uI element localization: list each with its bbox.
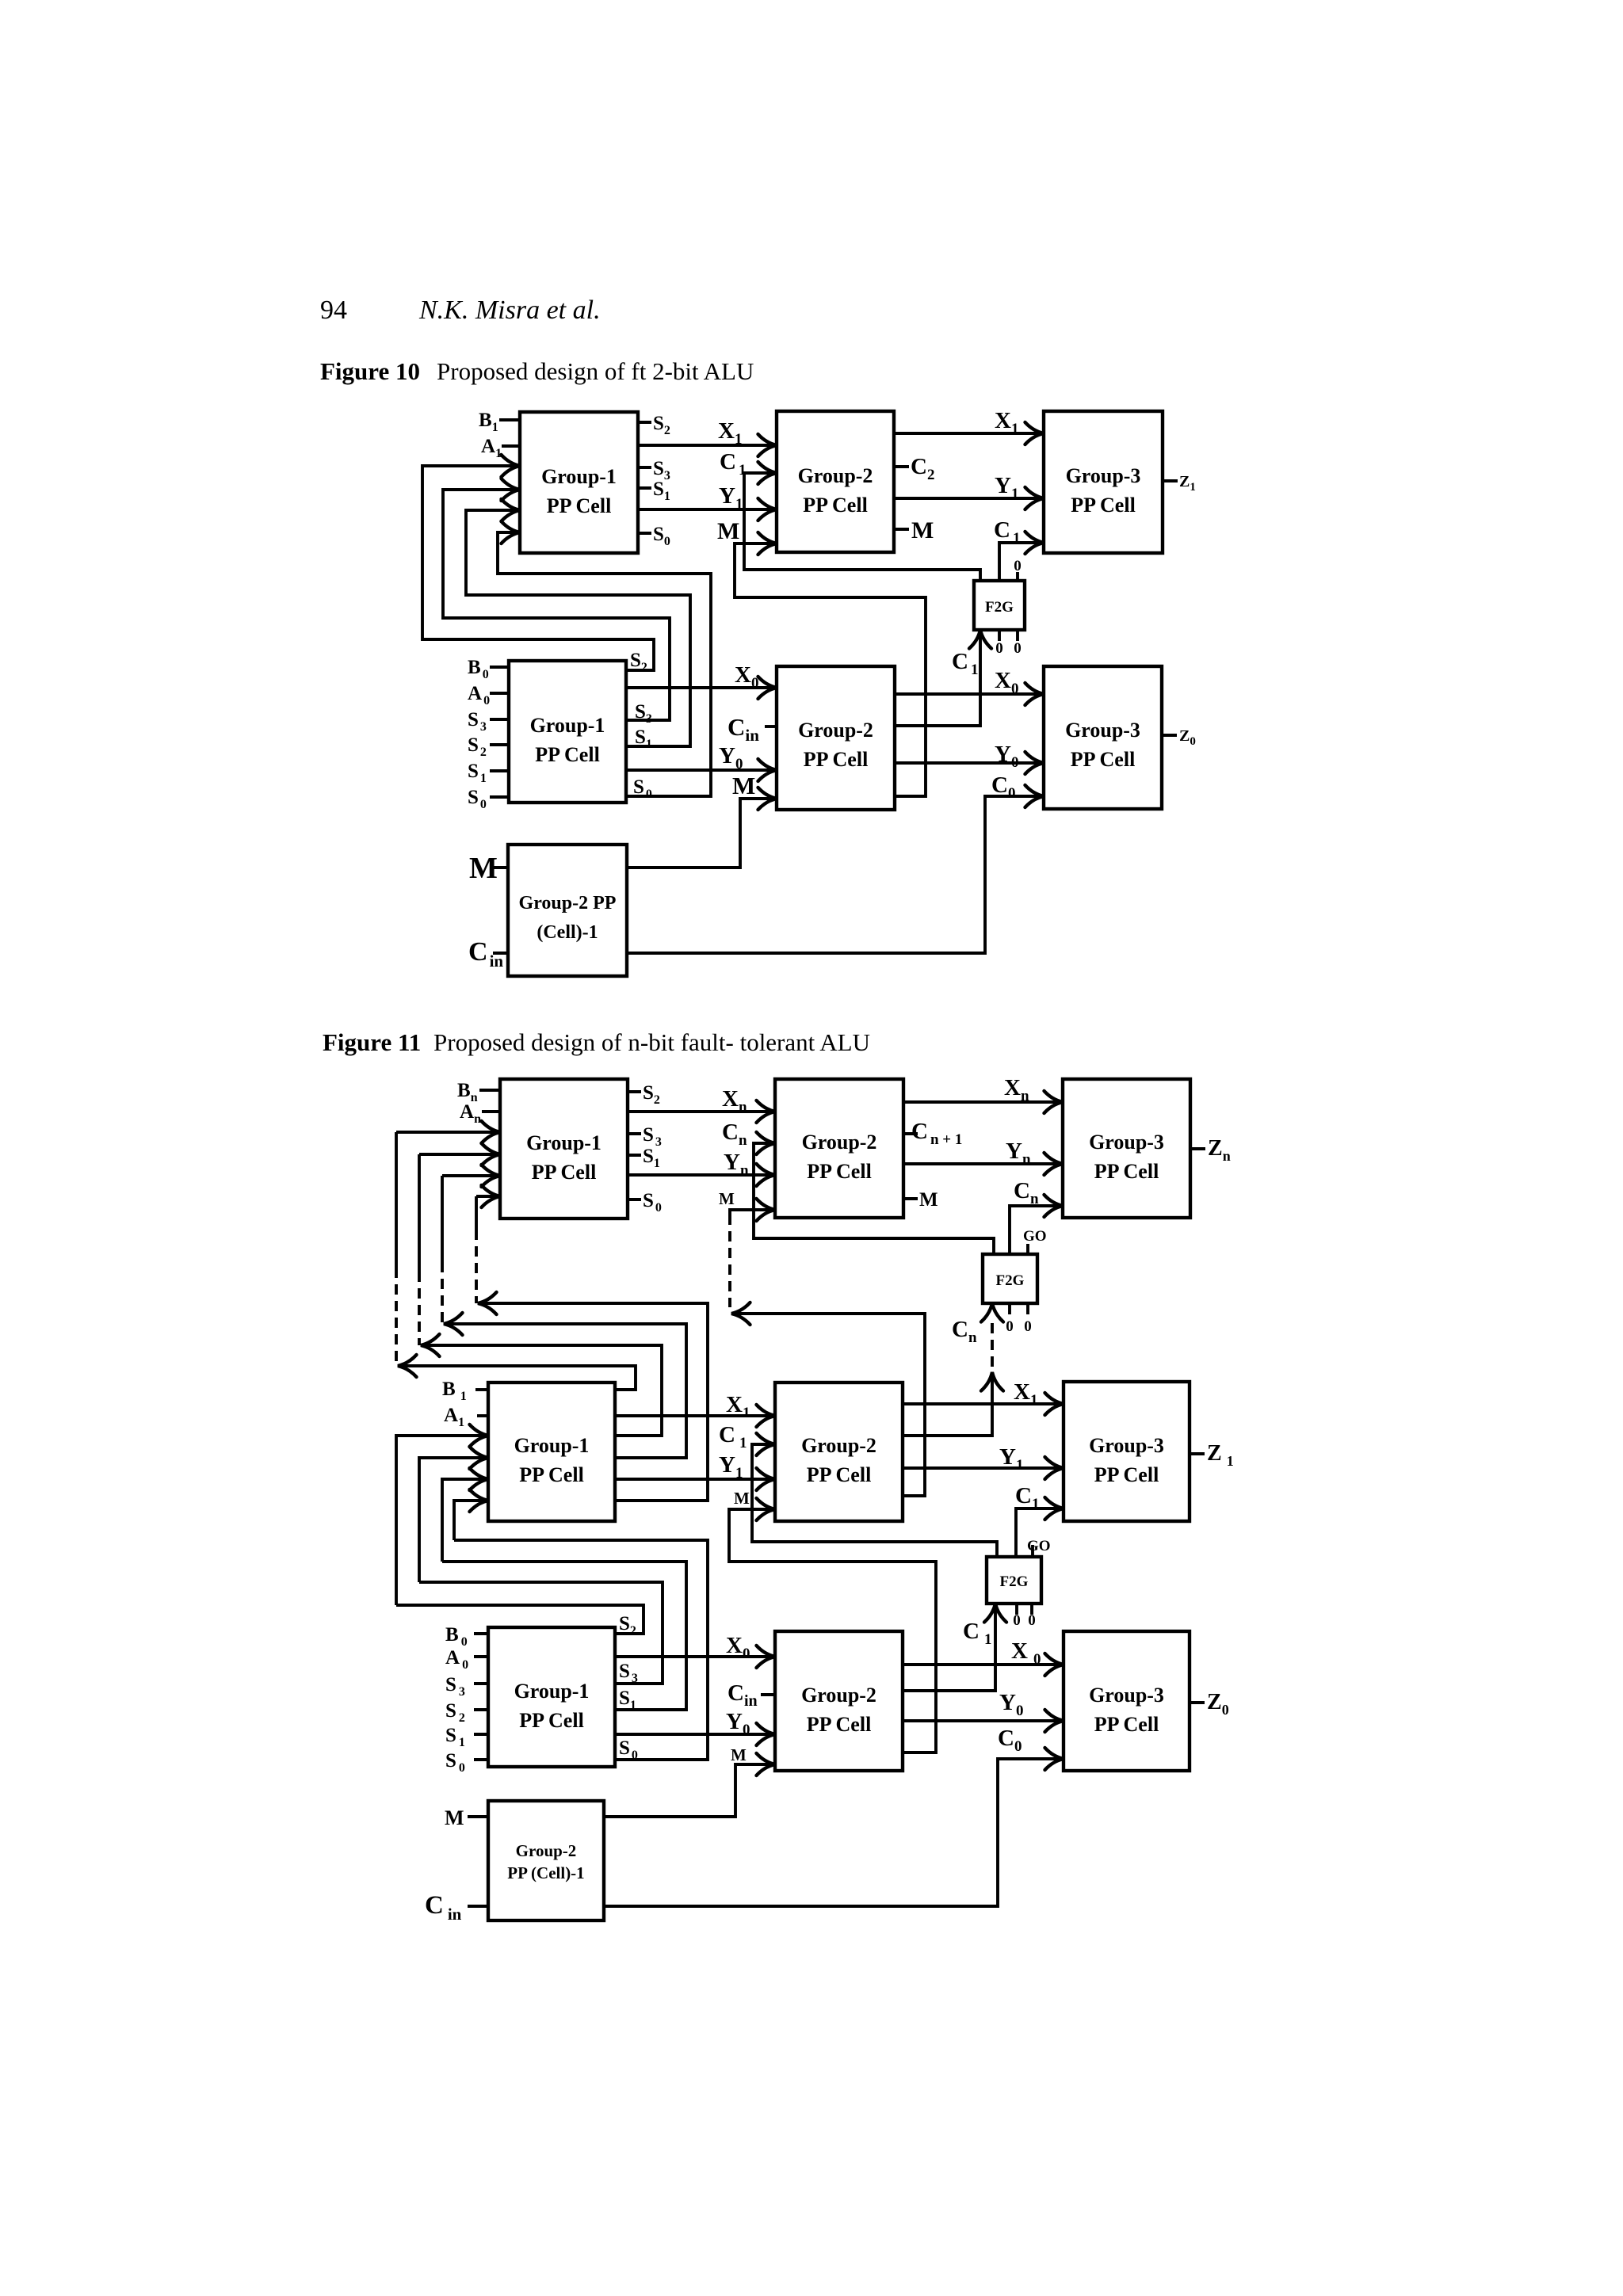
pin Z0 stub U19 bbox=[1190, 1701, 1205, 1704]
pin Zn stub U11 bbox=[1190, 1147, 1205, 1150]
svg-text:PP Cell: PP Cell bbox=[803, 494, 868, 517]
svg-text:PP Cell: PP Cell bbox=[547, 494, 612, 517]
arrow X1 into U3 bbox=[1025, 422, 1044, 444]
pin An stub U9 bbox=[482, 1110, 500, 1113]
arrow X1 into U2 bbox=[758, 434, 777, 456]
wire into U9 input 1 bbox=[396, 1131, 500, 1134]
wire into U13 input 2 bbox=[419, 1458, 488, 1582]
wire X0 U4 to U5 bbox=[626, 686, 777, 689]
arrow M into U14 bbox=[757, 1498, 776, 1520]
wire S1 step U17 bbox=[442, 1562, 686, 1710]
wire S2 feedback bit0 to U1 bbox=[422, 466, 654, 670]
wire vertical S2 chain dashed bbox=[395, 1268, 398, 1366]
pin M stub U10 bbox=[903, 1197, 918, 1200]
wire C1 U16 to U15 bbox=[1016, 1508, 1064, 1557]
pin M stub U20 bbox=[468, 1815, 488, 1818]
wire X1 U14 to U15 bbox=[903, 1402, 1064, 1405]
svg-text:M: M bbox=[919, 1189, 938, 1211]
arrow C0 into U19 bbox=[1045, 1748, 1064, 1770]
pin Cn+1 stub U10 bbox=[903, 1132, 918, 1135]
wire S0 step U17 bbox=[454, 1540, 708, 1760]
box U9 Group-1 PP Cell (bit n) bbox=[500, 1079, 628, 1219]
pin S3 stub U1 bbox=[638, 466, 651, 469]
arrow S3 feedback junction bbox=[421, 1334, 440, 1356]
svg-text:M: M bbox=[911, 517, 934, 543]
wire S2 step U17 bbox=[396, 1605, 643, 1634]
svg-text:0: 0 bbox=[995, 640, 1003, 657]
wire M into U10 solid bbox=[730, 1210, 775, 1215]
svg-text:Group-2: Group-2 bbox=[802, 1131, 877, 1154]
pin B1 stub U13 bbox=[475, 1388, 488, 1391]
arrow into U9 input 1 bbox=[482, 1121, 501, 1143]
wire S1 feedback U13 up bbox=[449, 1324, 686, 1458]
svg-text:Group-3: Group-3 bbox=[1066, 464, 1141, 487]
pin S1 stub U17 bbox=[474, 1733, 488, 1736]
arrow M into U10 bbox=[757, 1199, 776, 1221]
pin Z0 stub U6 bbox=[1162, 734, 1177, 737]
pin Z1 stub U15 bbox=[1190, 1452, 1205, 1455]
arrow Y1 into U2 bbox=[758, 498, 777, 521]
wire S1 feedback bit0 to U1 bbox=[466, 510, 690, 746]
pin 0 stub F2G bottom right bbox=[1016, 630, 1019, 641]
arrow M into U18 bbox=[757, 1753, 776, 1775]
wire C1 from F2G to U2 bbox=[744, 473, 980, 581]
svg-text:PP Cell: PP Cell bbox=[1071, 494, 1136, 517]
svg-text:M: M bbox=[732, 772, 755, 799]
box U10 Group-2 PP Cell (bit n) bbox=[775, 1079, 903, 1218]
box U13 Group-1 PP Cell (bit 1) bbox=[488, 1383, 615, 1521]
pin Cin stub U8 bbox=[493, 952, 508, 955]
pin B1 stub bbox=[499, 418, 520, 421]
wire C1 from U16 to U14 bbox=[752, 1444, 997, 1557]
wire Xn U10 to U11 bbox=[903, 1100, 1063, 1104]
svg-text:Group-2: Group-2 bbox=[516, 1841, 577, 1860]
wire X1 U13 to U14 bbox=[615, 1414, 775, 1417]
arrow Y1 into U15 bbox=[1045, 1457, 1064, 1479]
pin 0 stub F2G bottom left bbox=[998, 630, 1001, 641]
arrow Y0 into U19 bbox=[1045, 1710, 1064, 1732]
pin GO stub U12 bbox=[1026, 1244, 1029, 1254]
arrow Cn mid dashed bbox=[981, 1372, 1003, 1391]
arrow Y0 into U18 bbox=[757, 1723, 776, 1745]
pin 0 stub U16 bottom right bbox=[1030, 1604, 1033, 1615]
arrow C1 into U2 bbox=[758, 462, 777, 484]
svg-text:0: 0 bbox=[1006, 1318, 1014, 1335]
svg-text:GO: GO bbox=[1027, 1538, 1051, 1554]
wire into U9 input 4 bbox=[476, 1195, 500, 1198]
arrow Xn into U10 bbox=[757, 1100, 776, 1123]
wire X0 U5 to U6 bbox=[895, 692, 1044, 696]
box U18 Group-2 PP Cell (bit 0) bbox=[775, 1631, 903, 1771]
wire M from U8 to U5 bbox=[627, 799, 777, 868]
svg-text:GO: GO bbox=[1023, 1228, 1047, 1245]
svg-text:F2G: F2G bbox=[1000, 1573, 1029, 1590]
arrow into U1 input 2 bbox=[502, 479, 521, 501]
svg-text:0: 0 bbox=[1014, 558, 1022, 574]
box U3 Group-3 PP Cell (bit1) bbox=[1044, 411, 1163, 553]
arrow Xn into U11 bbox=[1044, 1091, 1064, 1113]
wire into U9 input 2 bbox=[419, 1153, 500, 1156]
wire Yn U10 to U11 bbox=[903, 1162, 1063, 1165]
svg-text:M: M bbox=[469, 852, 498, 885]
pin M stub U8 bbox=[491, 866, 508, 869]
wire X0 U18 to U19 bbox=[903, 1663, 1064, 1666]
wire into U13 input 1 bbox=[396, 1436, 488, 1605]
wire Cn dashed below U12 bbox=[991, 1323, 994, 1371]
arrow Y1 into U3 bbox=[1025, 487, 1044, 509]
box U12 F2G gate (bit n) bbox=[983, 1254, 1037, 1303]
pin A1 stub bbox=[502, 444, 520, 448]
arrow Y0 into U5 bbox=[758, 759, 777, 781]
svg-text:Group-2 PP: Group-2 PP bbox=[519, 893, 617, 913]
pin S2 stub U17 bbox=[474, 1708, 488, 1711]
svg-text:PP Cell: PP Cell bbox=[807, 1160, 872, 1183]
wire Y0 U4 to U5 bbox=[626, 769, 777, 772]
pin C2 stub U2 bbox=[894, 465, 909, 468]
arrow into U1 input 1 bbox=[502, 455, 521, 477]
arrow into U9 input 4 bbox=[482, 1185, 501, 1207]
pin S0 stub U1 bbox=[638, 532, 651, 535]
arrow C0 into U6 bbox=[1025, 785, 1044, 807]
arrow X0 into U5 bbox=[758, 677, 777, 699]
svg-text:Group-2: Group-2 bbox=[801, 1434, 876, 1457]
box U1 Group-1 PP Cell (bit1) bbox=[520, 412, 638, 553]
svg-text:Group-3: Group-3 bbox=[1089, 1684, 1164, 1707]
arrow Y1 into U14 bbox=[757, 1468, 776, 1490]
wire S3 step U17 bbox=[419, 1582, 663, 1684]
pin Z1 stub U3 bbox=[1163, 479, 1178, 482]
wire C1 from U18 to U16 bbox=[903, 1604, 995, 1691]
wire vertical S3 chain solid bbox=[418, 1154, 421, 1272]
wire M from U20 to U18 bbox=[604, 1764, 775, 1817]
svg-text:M: M bbox=[445, 1806, 464, 1829]
box U7 F2G gate bbox=[974, 581, 1025, 630]
wire Cn from U12 to U10 bbox=[754, 1143, 994, 1254]
box U20 Group-2 PP (Cell)-1 bbox=[488, 1801, 604, 1920]
wire Cn U12 to U11 bbox=[1010, 1206, 1063, 1254]
wire X1 U2 to U3 bbox=[894, 432, 1044, 435]
svg-text:M: M bbox=[734, 1489, 750, 1508]
svg-text:Figure 10: Figure 10 bbox=[320, 357, 420, 385]
arrow into U1 input 4 bbox=[502, 521, 521, 543]
pin A1 stub U13 bbox=[477, 1414, 488, 1417]
svg-text:0: 0 bbox=[1013, 1612, 1021, 1629]
pin S3 stub U17 bbox=[474, 1682, 488, 1685]
svg-text:94: 94 bbox=[320, 296, 347, 325]
arrow Y0 into U6 bbox=[1025, 752, 1044, 774]
pin Cin stub U20 bbox=[468, 1905, 488, 1908]
wire Y0 U17 to U18 bbox=[615, 1733, 775, 1736]
pin S2 stub U1 bbox=[638, 421, 651, 424]
wire S2 feedback U13 up bbox=[403, 1366, 636, 1390]
arrow Yn into U10 bbox=[757, 1164, 776, 1186]
svg-text:PP (Cell)-1: PP (Cell)-1 bbox=[507, 1863, 584, 1882]
pin B0 stub U4 bbox=[490, 666, 509, 669]
wire Y0 U18 to U19 bbox=[903, 1719, 1064, 1722]
pin S3 stub U4 bbox=[490, 718, 509, 721]
box U19 Group-3 PP Cell (bit 0) bbox=[1064, 1631, 1190, 1771]
svg-text:0: 0 bbox=[1024, 1318, 1032, 1335]
svg-text:PP Cell: PP Cell bbox=[1094, 1713, 1159, 1736]
arrow C1 into U14 bbox=[757, 1433, 776, 1455]
svg-text:Group-2: Group-2 bbox=[798, 719, 873, 742]
wire Y1 U2 to U3 bbox=[894, 497, 1044, 500]
wire into U13 input 4 bbox=[454, 1501, 488, 1540]
arrow C1 into U15 bbox=[1045, 1497, 1064, 1520]
box U15 Group-3 PP Cell (bit 1) bbox=[1064, 1382, 1190, 1521]
wire X0 U17 to U18 bbox=[615, 1655, 775, 1658]
svg-text:PP Cell: PP Cell bbox=[807, 1713, 872, 1736]
svg-text:PP Cell: PP Cell bbox=[535, 743, 600, 766]
svg-text:Group-3: Group-3 bbox=[1065, 719, 1140, 742]
pin Cin stub U5 bbox=[765, 725, 777, 728]
svg-text:PP Cell: PP Cell bbox=[519, 1463, 584, 1486]
svg-text:M: M bbox=[719, 1189, 735, 1208]
arrow X0 into U19 bbox=[1045, 1653, 1064, 1676]
pin A0 stub U4 bbox=[490, 692, 509, 695]
arrow X0 into U18 bbox=[757, 1646, 776, 1668]
arrow C1 into U16 bbox=[984, 1604, 1006, 1623]
pin GO stub U16 bbox=[1031, 1545, 1034, 1557]
pin S0 stub U4 bbox=[490, 795, 509, 799]
svg-text:Figure 11: Figure 11 bbox=[323, 1028, 421, 1056]
pin 0 stub F2G top bbox=[1016, 572, 1019, 581]
svg-text:PP Cell: PP Cell bbox=[532, 1161, 597, 1184]
arrow M into U2 bbox=[758, 532, 777, 555]
pin B0 stub U17 bbox=[474, 1632, 488, 1635]
pin M stub U2 bbox=[894, 528, 909, 531]
pin 0 stub U12 bottom left bbox=[1008, 1303, 1011, 1314]
svg-text:PP Cell: PP Cell bbox=[804, 748, 869, 771]
arrow into U13 input 2 bbox=[470, 1447, 489, 1469]
wire C1 F2G to U3 bbox=[999, 543, 1044, 581]
wire C0 from U20 to U19 bbox=[604, 1759, 1064, 1906]
svg-text:Proposed design of n-bit fault: Proposed design of n-bit fault- tolerant… bbox=[433, 1028, 870, 1056]
arrow C1 into U3 bbox=[1025, 532, 1044, 554]
wire S0 feedback U13 up bbox=[483, 1303, 708, 1501]
pin Cin stub U18 bbox=[761, 1693, 775, 1696]
wire vertical S3 chain dashed bbox=[418, 1272, 421, 1345]
box U6 Group-3 PP Cell (bit0) bbox=[1044, 666, 1162, 809]
arrow into U13 input 3 bbox=[470, 1468, 489, 1490]
svg-text:PP Cell: PP Cell bbox=[1071, 748, 1136, 771]
wire into U13 input 3 bbox=[442, 1479, 488, 1562]
svg-text:0: 0 bbox=[1028, 1612, 1036, 1629]
wire vertical S0 chain dashed bbox=[475, 1230, 478, 1303]
box U5 Group-2 PP Cell (bit0) bbox=[777, 666, 895, 810]
arrow M feedback junction bbox=[731, 1302, 750, 1325]
arrow into U9 input 2 bbox=[482, 1143, 501, 1165]
svg-text:F2G: F2G bbox=[996, 1272, 1025, 1289]
svg-text:Group-1: Group-1 bbox=[514, 1680, 590, 1703]
arrow X0 into U6 bbox=[1025, 683, 1044, 705]
svg-text:Group-3: Group-3 bbox=[1089, 1131, 1164, 1154]
box U4 Group-1 PP Cell (bit0) bbox=[509, 661, 626, 803]
wire C1 from U5 to F2G bbox=[895, 630, 980, 726]
arrow Cn into U10 bbox=[757, 1132, 776, 1154]
wire C0 from U8 to U6 bbox=[627, 796, 1044, 953]
arrow C1 into F2G bbox=[969, 630, 991, 649]
arrow into U1 input 3 bbox=[502, 499, 521, 521]
svg-text:M: M bbox=[717, 518, 739, 544]
arrow S2 feedback junction bbox=[398, 1355, 417, 1377]
arrow into U9 input 3 bbox=[482, 1165, 501, 1187]
svg-text:0: 0 bbox=[1014, 640, 1022, 657]
wire M feedback from U14 bbox=[736, 1314, 925, 1496]
svg-text:M: M bbox=[731, 1745, 747, 1764]
svg-text:PP Cell: PP Cell bbox=[807, 1463, 872, 1486]
svg-text:PP Cell: PP Cell bbox=[519, 1709, 584, 1732]
svg-text:N.K. Misra et al.: N.K. Misra et al. bbox=[418, 296, 601, 325]
wire vertical S0 chain solid bbox=[475, 1196, 478, 1230]
wire M from U18 to U14 bbox=[729, 1509, 936, 1753]
svg-text:Group-2: Group-2 bbox=[798, 464, 873, 487]
arrow X1 into U14 bbox=[757, 1405, 776, 1427]
arrow Cn into U11 bbox=[1044, 1195, 1064, 1217]
pin S1 stub U4 bbox=[490, 769, 509, 772]
box U16 F2G gate (bit 1) bbox=[987, 1557, 1041, 1604]
svg-text:Group-2: Group-2 bbox=[801, 1684, 876, 1707]
wire S3 feedback U13 up bbox=[426, 1345, 662, 1436]
arrow X1 into U15 bbox=[1045, 1393, 1064, 1415]
wire S3 feedback bit0 to U1 bbox=[443, 490, 670, 720]
wire X1 U1 to U2 bbox=[638, 444, 777, 447]
pin A0 stub U17 bbox=[474, 1655, 488, 1658]
pin 0 stub U12 bottom right bbox=[1026, 1303, 1029, 1314]
box U2 Group-2 PP Cell (bit1) bbox=[777, 411, 894, 552]
wire vertical S1 chain solid bbox=[441, 1176, 444, 1262]
arrow Yn into U11 bbox=[1044, 1153, 1064, 1175]
wire into U9 input 3 bbox=[442, 1174, 500, 1177]
arrow M into U5 bbox=[758, 788, 777, 810]
arrow into U13 input 1 bbox=[470, 1425, 489, 1447]
box U17 Group-1 PP Cell (bit 0) bbox=[488, 1627, 615, 1767]
wire Xn U9 to U10 bbox=[628, 1110, 775, 1113]
pin S0 stub U9 bbox=[628, 1198, 641, 1201]
pin S2 stub U9 bbox=[628, 1090, 641, 1093]
svg-text:(Cell)-1: (Cell)-1 bbox=[537, 922, 598, 943]
svg-text:PP Cell: PP Cell bbox=[1094, 1160, 1159, 1183]
wire M chain dashed bbox=[728, 1215, 731, 1307]
arrow S1 feedback junction bbox=[444, 1313, 463, 1335]
svg-text:Group-1: Group-1 bbox=[514, 1434, 590, 1457]
wire vertical S1 chain dashed bbox=[441, 1262, 444, 1324]
pin Bn stub U9 bbox=[479, 1089, 500, 1092]
box U11 Group-3 PP Cell (bit n) bbox=[1063, 1079, 1190, 1218]
box U8 Group-2 PP (Cell)-1 bbox=[508, 845, 627, 976]
svg-text:F2G: F2G bbox=[985, 599, 1014, 616]
pin S0 stub U17 bbox=[474, 1758, 488, 1761]
svg-text:Group-3: Group-3 bbox=[1089, 1434, 1164, 1457]
wire Y1 U14 to U15 bbox=[903, 1466, 1064, 1470]
arrow Cn into U12 bottom bbox=[981, 1303, 1003, 1322]
wire Y1 U13 to U14 bbox=[615, 1478, 775, 1481]
arrow into U13 input 4 bbox=[470, 1489, 489, 1512]
wire M from U5 up to U2 bbox=[735, 543, 926, 796]
wire Y1 U1 to U2 bbox=[638, 508, 777, 511]
box U14 Group-2 PP Cell (bit 1) bbox=[775, 1383, 903, 1521]
pin S1 stub U9 bbox=[628, 1154, 641, 1157]
wire Cn solid from U14 bbox=[903, 1372, 992, 1436]
svg-text:Group-1: Group-1 bbox=[526, 1131, 601, 1154]
svg-text:Group-1: Group-1 bbox=[541, 465, 617, 488]
wire Y0 U5 to U6 bbox=[895, 761, 1044, 765]
wire vertical S2 chain solid bbox=[395, 1132, 398, 1268]
svg-text:PP Cell: PP Cell bbox=[1094, 1463, 1159, 1486]
svg-text:Proposed design of ft 2-bit AL: Proposed design of ft 2-bit ALU bbox=[437, 357, 754, 385]
pin 0 stub U16 bottom left bbox=[1015, 1604, 1018, 1615]
pin S2 stub U4 bbox=[490, 743, 509, 746]
wire S0 feedback bit0 to U1 bbox=[498, 532, 711, 796]
pin S3 stub U9 bbox=[628, 1132, 641, 1135]
pin S1 stub U1 bbox=[638, 486, 651, 490]
svg-text:Group-1: Group-1 bbox=[530, 714, 605, 737]
wire Yn U9 to U10 bbox=[628, 1173, 775, 1177]
arrow S0 feedback junction bbox=[478, 1292, 497, 1314]
